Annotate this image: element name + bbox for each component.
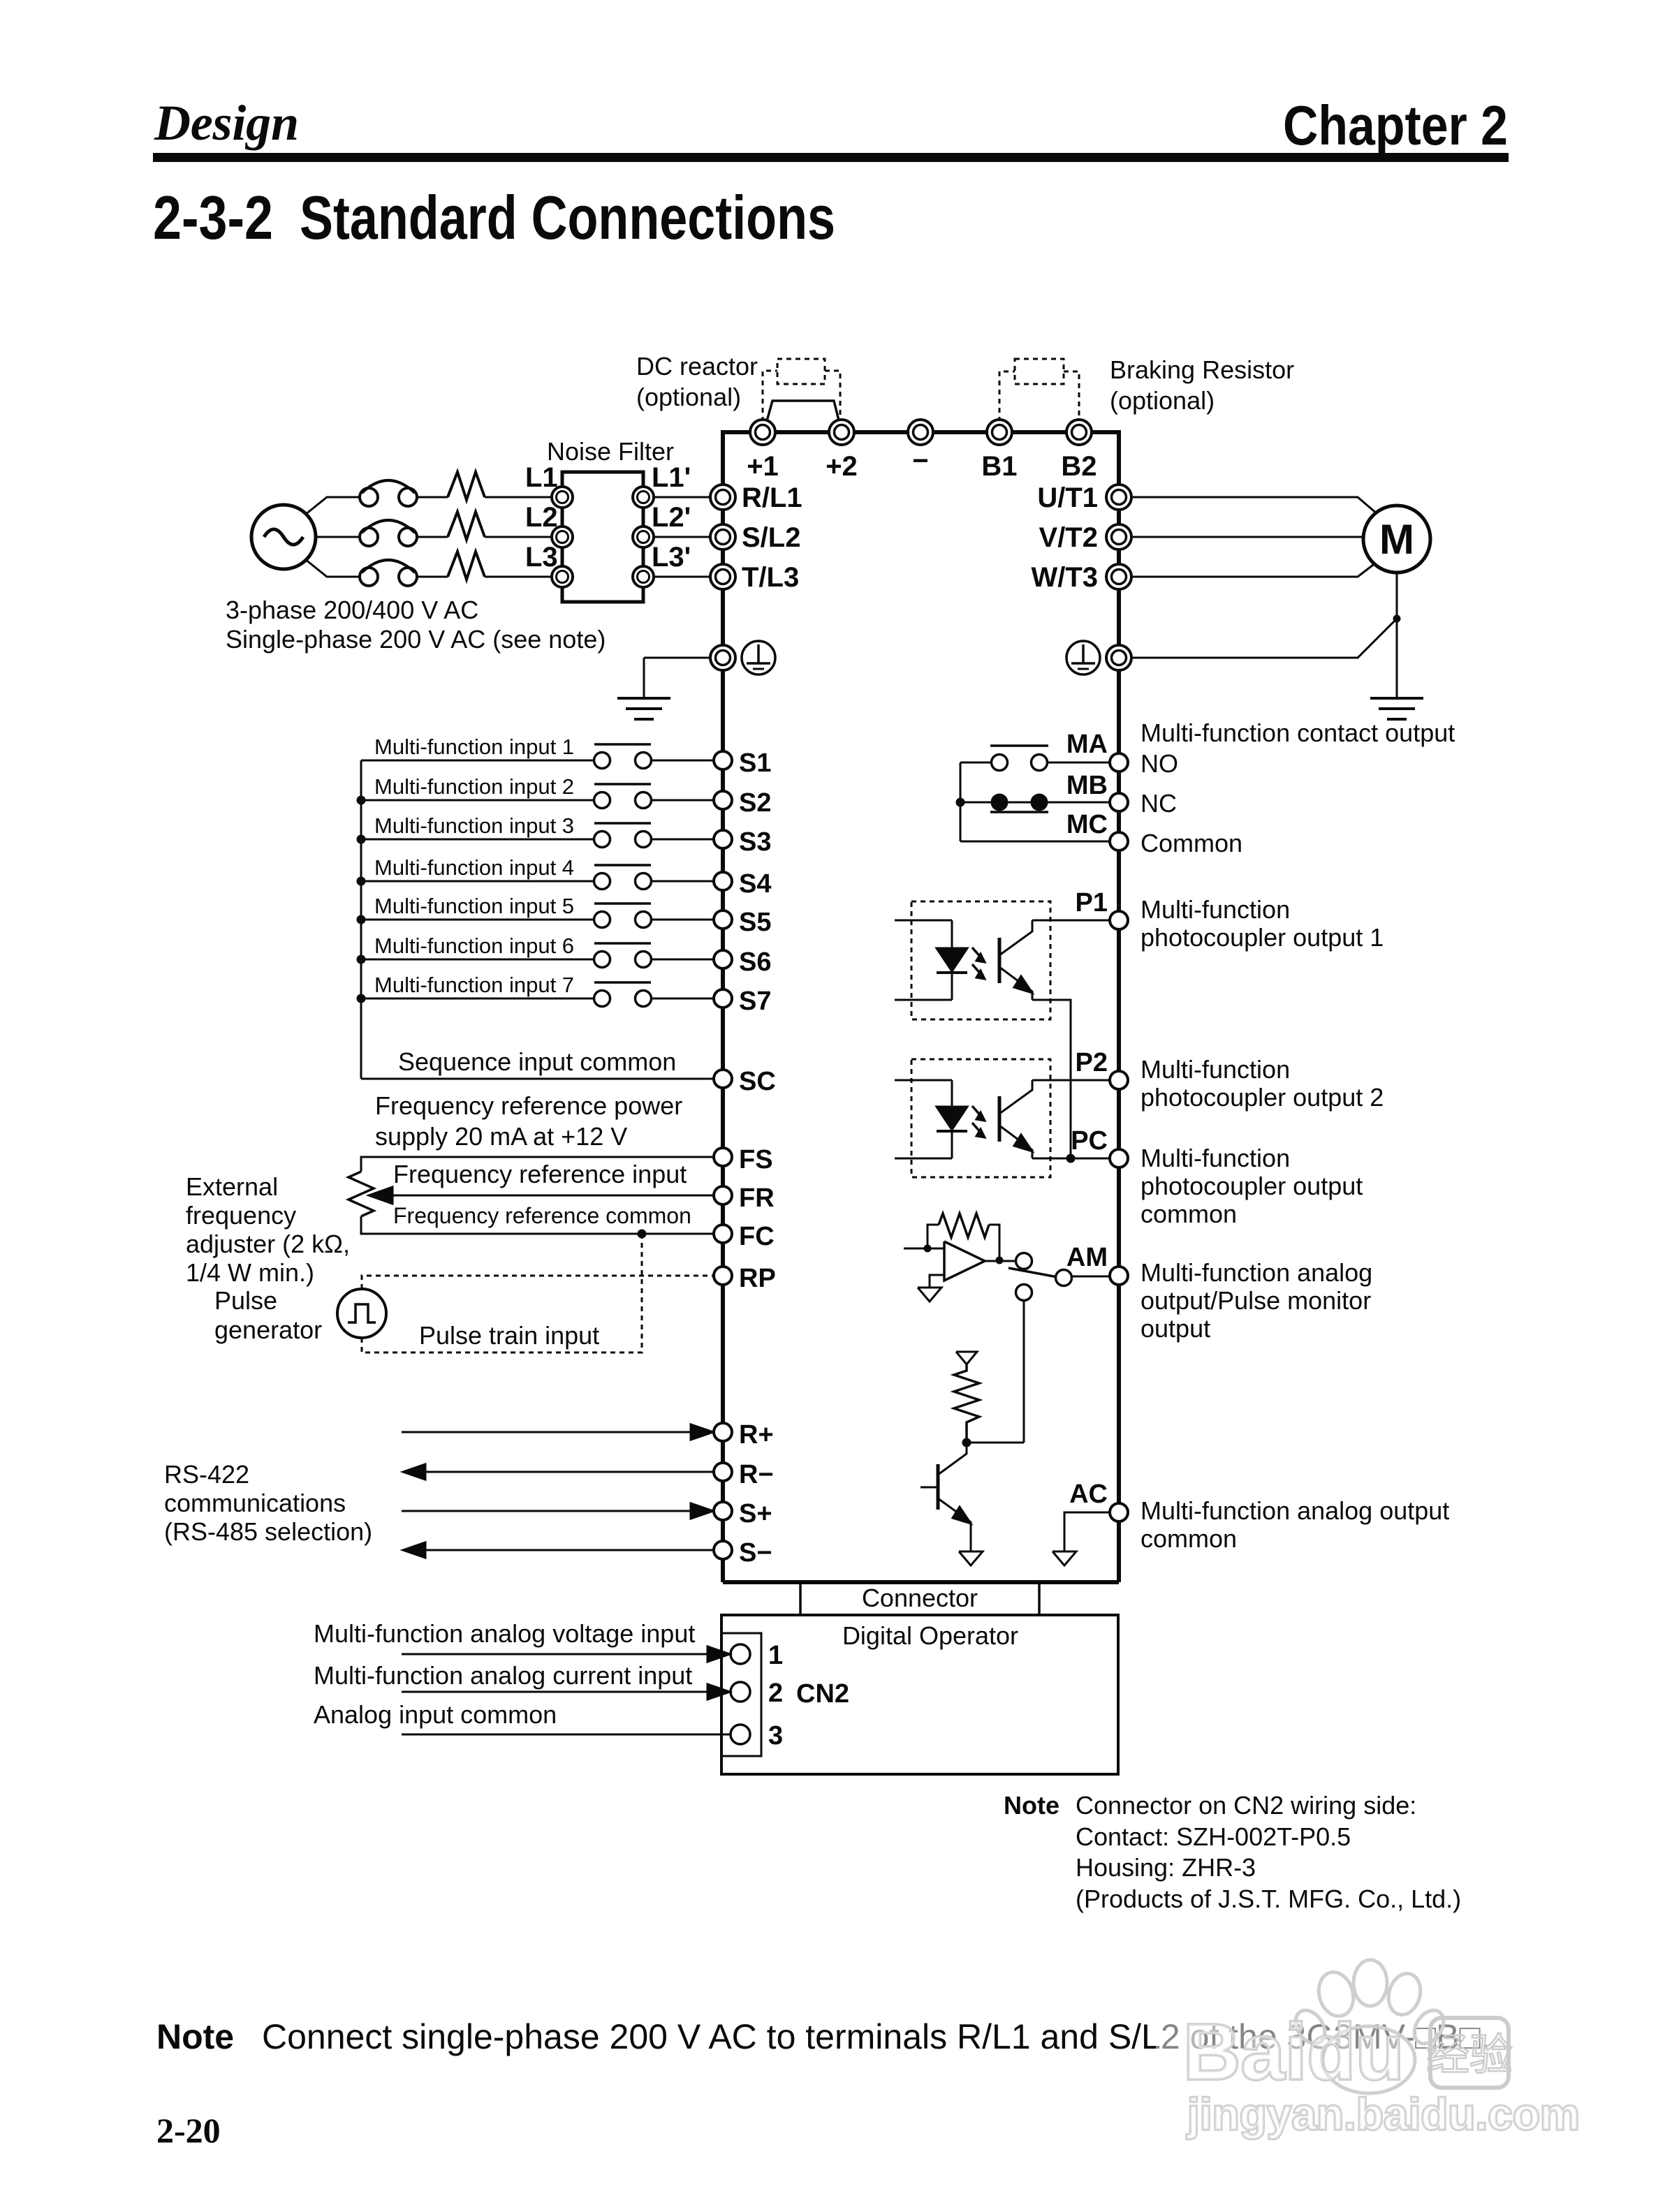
- svg-text:(RS-485 selection): (RS-485 selection): [164, 1517, 372, 1546]
- wire PE terminal left: [644, 657, 710, 659]
- svg-text:AM: AM: [1066, 1243, 1108, 1272]
- CN2 connector box: [721, 1633, 761, 1756]
- svg-text:S2: S2: [739, 788, 771, 818]
- photocoupler U2 dashed box: [911, 1059, 1050, 1177]
- svg-text:MC: MC: [1066, 810, 1108, 839]
- DC reactor (optional) dashed box: [777, 359, 825, 384]
- svg-text:B1: B1: [981, 451, 1017, 482]
- bottom note: [156, 2017, 1490, 2056]
- label photocoupler common line3: [1140, 1200, 1237, 1228]
- ground arrow op-amp: [918, 1288, 941, 1302]
- svg-text:Chapter 2: Chapter 2: [1283, 94, 1508, 156]
- svg-text:S/L2: S/L2: [742, 522, 800, 553]
- AC source (3-phase supply): [251, 505, 316, 569]
- terminal P1: [1110, 911, 1128, 929]
- note line 2: [1076, 1822, 1351, 1851]
- svg-text:L1: L1: [525, 462, 558, 493]
- svg-text:generator: generator: [214, 1315, 322, 1344]
- svg-text:(Products of J.S.T. MFG. Co.,: (Products of J.S.T. MFG. Co., Ltd.): [1076, 1885, 1461, 1913]
- terminal S/L2: [710, 524, 735, 550]
- svg-text:External: External: [186, 1172, 278, 1201]
- label S-: [739, 1538, 772, 1568]
- fuse F3: [360, 560, 417, 586]
- wire fuse to surge symbol row 1: [417, 496, 448, 499]
- junction bus S2: [357, 796, 366, 805]
- wire U2 collector to P2: [1032, 1079, 1110, 1082]
- inverter box outline: [723, 432, 1119, 1582]
- svg-text:2: 2: [768, 1679, 783, 1708]
- wire zigzag to noise filter L2: [485, 536, 552, 538]
- label RS-422 line1: [164, 1460, 249, 1489]
- svg-text:communications: communications: [164, 1489, 346, 1517]
- svg-text:FR: FR: [739, 1184, 775, 1213]
- wire bus to switch S5: [361, 919, 594, 921]
- label S4: [739, 869, 771, 899]
- svg-text:Note: Note: [1004, 1791, 1059, 1820]
- wire bus to switch S3: [361, 839, 594, 841]
- label analog output line2: [1140, 1286, 1371, 1315]
- switch contact S3: [594, 823, 652, 848]
- label photocoupler common line2: [1140, 1172, 1363, 1200]
- supply arrow above resistor: [956, 1352, 977, 1364]
- transistor Q1: [920, 1443, 971, 1551]
- photocoupler U2 phototransistor: [999, 1080, 1032, 1158]
- switch contact S4: [594, 865, 652, 890]
- wire switch to terminal S7: [652, 998, 713, 1000]
- svg-text:1: 1: [768, 1641, 783, 1670]
- svg-text:Frequency reference common: Frequency reference common: [393, 1203, 691, 1228]
- label Frequency reference power supply line1: [375, 1091, 682, 1120]
- wire switch to terminal S1: [652, 760, 713, 762]
- label Frequency reference input: [393, 1160, 687, 1188]
- svg-text:经验: 经验: [1426, 2031, 1513, 2079]
- wire contact c down: [1023, 1301, 1025, 1443]
- label Multi-function input 5: [374, 894, 574, 918]
- svg-text:M: M: [1379, 516, 1414, 563]
- label photocoupler output 2 line2: [1140, 1083, 1384, 1112]
- svg-text:Contact: SZH-002T-P0.5: Contact: SZH-002T-P0.5: [1076, 1822, 1351, 1851]
- wire fuse to surge symbol row 2: [417, 536, 448, 538]
- svg-text:W/T3: W/T3: [1031, 562, 1098, 593]
- wire R- with arrow: [403, 1464, 713, 1480]
- label Common: [1140, 829, 1242, 857]
- svg-text:P2: P2: [1076, 1048, 1108, 1077]
- junction contact bus MB: [956, 798, 965, 807]
- label pin 3: [768, 1721, 783, 1750]
- terminal S6: [714, 950, 732, 968]
- svg-text:NC: NC: [1140, 789, 1177, 818]
- label NO: [1140, 749, 1178, 778]
- digital operator box: [721, 1615, 1118, 1774]
- label Single-phase 200 V AC: [226, 625, 606, 654]
- label L3: [525, 542, 558, 573]
- photocoupler U1 light arrows: [972, 948, 985, 979]
- fuse F1: [360, 480, 417, 506]
- svg-text:photocoupler output 1: photocoupler output 1: [1140, 923, 1384, 952]
- svg-text:Multi-function: Multi-function: [1140, 1055, 1290, 1084]
- contact output left bus: [960, 762, 962, 841]
- wire PC: [1071, 1158, 1110, 1160]
- label Frequency reference power supply line2: [375, 1122, 627, 1151]
- svg-text:AC: AC: [1069, 1480, 1108, 1509]
- svg-text:S+: S+: [739, 1499, 772, 1528]
- label P1: [1076, 888, 1108, 917]
- label photocoupler common line1: [1140, 1144, 1290, 1172]
- terminal S2: [714, 791, 732, 809]
- wire analog current input with arrow: [402, 1684, 730, 1699]
- wire analog voltage input with arrow: [402, 1646, 730, 1662]
- svg-text:Analog input common: Analog input common: [314, 1700, 557, 1729]
- label L2&#8217;: [652, 502, 691, 533]
- selector switch lever: [1008, 1268, 1057, 1277]
- svg-text:S−: S−: [739, 1538, 772, 1568]
- junction PC: [1066, 1154, 1076, 1163]
- photocoupler U1 LED: [937, 948, 967, 973]
- junction bus S6: [357, 955, 366, 964]
- label +1: [747, 451, 779, 482]
- inverter bottom edge: [723, 1580, 1119, 1584]
- wire bus to MC: [960, 841, 1109, 843]
- label S7: [739, 987, 771, 1016]
- wire noise filter L1' to inverter: [654, 496, 710, 499]
- svg-text:Connector on CN2 wiring side:: Connector on CN2 wiring side:: [1076, 1791, 1416, 1820]
- label R+: [739, 1420, 774, 1450]
- terminal - (minus): [908, 420, 933, 445]
- svg-text:(optional): (optional): [636, 383, 741, 411]
- terminal S5: [714, 910, 732, 929]
- wire potentiometer to FC: [361, 1216, 713, 1234]
- wire U1 collector to P1: [1032, 920, 1110, 922]
- svg-text:Single-phase 200 V AC (see not: Single-phase 200 V AC (see note): [226, 625, 606, 654]
- label Sequence input common: [398, 1047, 676, 1076]
- svg-text:S1: S1: [739, 749, 771, 778]
- terminal W/T3: [1106, 564, 1131, 589]
- wire noise filter L2' to inverter: [654, 536, 710, 538]
- ground symbol motor: [1370, 698, 1423, 719]
- wire U/T1 to motor: [1131, 497, 1377, 514]
- label NC: [1140, 789, 1177, 818]
- baidu watermark: [1156, 1959, 1585, 2151]
- wire V/T2 to motor: [1131, 536, 1365, 538]
- terminal PC: [1110, 1149, 1128, 1167]
- svg-text:Braking Resistor: Braking Resistor: [1110, 355, 1294, 384]
- terminal SC: [714, 1070, 732, 1088]
- surge/impedance zigzag row 3: [448, 552, 485, 580]
- label Braking Resistor: [1110, 355, 1294, 384]
- label L1&#8217;: [652, 462, 691, 493]
- svg-text:Multi-function contact output: Multi-function contact output: [1140, 718, 1455, 747]
- svg-text:common: common: [1140, 1524, 1237, 1553]
- junction bus S7: [357, 994, 366, 1003]
- noise filter terminal L2: [552, 526, 573, 547]
- svg-text:P1: P1: [1076, 888, 1108, 917]
- ground symbol left: [617, 698, 670, 719]
- label S3: [739, 827, 771, 857]
- svg-text:V/T2: V/T2: [1039, 522, 1098, 553]
- switch contact S2: [594, 784, 652, 809]
- wire R+ with arrow: [402, 1424, 713, 1440]
- svg-text:Frequency reference input: Frequency reference input: [393, 1160, 687, 1188]
- jumper bar between +1 and +2: [765, 401, 840, 426]
- noise filter terminal L2': [633, 526, 654, 547]
- wire S- with arrow: [403, 1542, 713, 1558]
- label analog output line3: [1140, 1314, 1210, 1343]
- selector switch contact a: [1016, 1253, 1032, 1269]
- label L2: [525, 502, 558, 533]
- wire fuse to surge symbol row 3: [417, 576, 448, 578]
- header rule: [153, 153, 1509, 162]
- CN2 pin 3: [731, 1725, 750, 1744]
- sequence input bus: [360, 760, 362, 1079]
- terminal FS: [714, 1148, 732, 1166]
- svg-text:Pulse: Pulse: [214, 1286, 277, 1315]
- terminal P2: [1110, 1071, 1128, 1089]
- ground arrow transistor emitter: [959, 1551, 983, 1565]
- wire U2 emitter to PC: [1032, 1158, 1071, 1160]
- label RS-422 line2: [164, 1489, 346, 1517]
- junction bus S4: [357, 877, 366, 886]
- label External frequency adjuster line1: [186, 1172, 278, 1201]
- wire switch to terminal S6: [652, 959, 713, 961]
- junction resistor/transistor: [962, 1438, 971, 1447]
- svg-text:2-20: 2-20: [156, 2111, 221, 2150]
- terminal B1: [987, 420, 1012, 445]
- label analog output common line2: [1140, 1524, 1237, 1553]
- label RP: [739, 1264, 776, 1293]
- surge/impedance zigzag row 2: [448, 512, 485, 540]
- terminal MB: [1110, 793, 1128, 811]
- photocoupler U2 LED: [937, 1107, 967, 1131]
- terminal B2: [1066, 420, 1092, 445]
- terminal S+: [714, 1502, 732, 1520]
- svg-text:RS-422: RS-422: [164, 1460, 249, 1489]
- label V/T2: [1039, 522, 1098, 553]
- svg-text:supply 20 mA at +12 V: supply 20 mA at +12 V: [375, 1122, 627, 1151]
- CN2 pin 2: [731, 1682, 750, 1702]
- label R-: [739, 1460, 774, 1489]
- svg-text:S4: S4: [739, 869, 771, 899]
- wire op-amp output: [985, 1260, 1015, 1262]
- noise filter terminal L3: [552, 566, 573, 587]
- dashed wire FC to pulse box: [362, 1234, 642, 1352]
- svg-text:Noise Filter: Noise Filter: [547, 437, 674, 466]
- svg-text:(optional): (optional): [1110, 386, 1215, 415]
- terminal R-: [714, 1463, 732, 1481]
- terminal U/T1: [1106, 485, 1131, 510]
- label FC: [739, 1222, 775, 1251]
- terminal FR: [714, 1186, 732, 1204]
- label CN2: [796, 1679, 849, 1709]
- svg-text:Sequence input common: Sequence input common: [398, 1047, 676, 1076]
- wire U1 emitter to PC: [1032, 1000, 1071, 1158]
- label +2: [826, 451, 858, 482]
- note line 4: [1076, 1885, 1461, 1913]
- wire analog input common: [402, 1734, 730, 1736]
- DC reactor dashed wiring: [763, 371, 840, 422]
- svg-text:Multi-function analog: Multi-function analog: [1140, 1258, 1372, 1287]
- svg-text:NO: NO: [1140, 749, 1178, 778]
- terminal MC: [1110, 832, 1128, 850]
- terminal +2: [829, 420, 854, 445]
- dashed wire pulse gen to RP: [362, 1276, 713, 1289]
- label Multi-function input 2: [374, 774, 574, 799]
- terminal S4: [714, 872, 732, 890]
- svg-text:SC: SC: [739, 1067, 776, 1096]
- label B1: [981, 451, 1017, 482]
- label pin 1: [768, 1641, 783, 1670]
- junction bus S3: [357, 835, 366, 844]
- svg-text:T/L3: T/L3: [742, 562, 799, 593]
- label Frequency reference common: [393, 1203, 691, 1228]
- resistor R1 vertical: [954, 1364, 979, 1443]
- wire bus to switch S6: [361, 959, 594, 961]
- note line 3: [1076, 1853, 1256, 1882]
- label MC: [1066, 810, 1108, 839]
- wire bus to switch S1: [361, 760, 594, 762]
- wire PE down left: [643, 658, 645, 698]
- svg-text:Multi-function input 2: Multi-function input 2: [374, 774, 574, 799]
- svg-text:DC reactor: DC reactor: [636, 352, 758, 381]
- svg-text:photocoupler output: photocoupler output: [1140, 1172, 1363, 1200]
- label P2: [1076, 1048, 1108, 1077]
- label photocoupler output 2 line1: [1140, 1055, 1290, 1084]
- svg-text:S7: S7: [739, 987, 771, 1016]
- svg-text:L1': L1': [652, 462, 691, 493]
- PE circle symbol left: [742, 641, 775, 674]
- svg-text:1/4 W min.): 1/4 W min.): [186, 1258, 314, 1287]
- note line 1: [1076, 1791, 1416, 1820]
- label 3-phase 200/400 V AC: [226, 596, 478, 624]
- junction op-amp plus input: [924, 1245, 932, 1253]
- label FS: [739, 1145, 773, 1174]
- photocoupler U2 input wires: [895, 1080, 952, 1158]
- label S1: [739, 749, 771, 778]
- svg-text:photocoupler output 2: photocoupler output 2: [1140, 1083, 1384, 1112]
- label Multi-function input 7: [374, 973, 574, 997]
- svg-text:RP: RP: [739, 1264, 776, 1293]
- label S6: [739, 948, 771, 977]
- svg-text:Pulse train input: Pulse train input: [419, 1321, 599, 1350]
- wire SC: [361, 1078, 713, 1080]
- label Multi-function input 4: [374, 855, 574, 880]
- switch contact S7: [594, 982, 652, 1007]
- fuse F2: [360, 520, 417, 546]
- motor M: [1363, 506, 1430, 573]
- wire switch to terminal S4: [652, 880, 713, 883]
- svg-text:output/Pulse monitor: output/Pulse monitor: [1140, 1286, 1371, 1315]
- section heading 2-3-2 Standard Connections: [153, 183, 835, 252]
- svg-text:Housing: ZHR-3: Housing: ZHR-3: [1076, 1853, 1256, 1882]
- wire zigzag to noise filter L1: [485, 496, 552, 499]
- svg-text:Multi-function: Multi-function: [1140, 1144, 1290, 1172]
- label B2: [1061, 451, 1096, 482]
- label External frequency adjuster line3: [186, 1230, 350, 1258]
- label photocoupler output 1 line2: [1140, 923, 1384, 952]
- svg-text:S3: S3: [739, 827, 771, 857]
- svg-text:FS: FS: [739, 1145, 773, 1174]
- label S+: [739, 1499, 772, 1528]
- svg-text:Multi-function input 6: Multi-function input 6: [374, 934, 574, 958]
- label RS-422 line3: [164, 1517, 372, 1546]
- label DC reactor: [636, 352, 758, 381]
- terminal S3: [714, 830, 732, 848]
- braking resistor dashed wiring: [999, 371, 1079, 422]
- svg-text:Multi-function: Multi-function: [1140, 895, 1290, 924]
- wire source to fuse L2: [316, 536, 360, 538]
- svg-text:L2': L2': [652, 502, 691, 533]
- wire switch to AM: [1072, 1276, 1110, 1278]
- svg-text:Multi-function input 7: Multi-function input 7: [374, 973, 574, 997]
- label S2: [739, 788, 771, 818]
- svg-text:R/L1: R/L1: [742, 482, 802, 513]
- svg-text:frequency: frequency: [186, 1201, 296, 1230]
- svg-text:Digital Operator: Digital Operator: [842, 1621, 1018, 1650]
- label Multi-function analog current input: [314, 1661, 692, 1690]
- terminal S7: [714, 989, 732, 1008]
- junction bus S5: [357, 915, 366, 924]
- label Multi-function analog voltage input: [314, 1619, 695, 1648]
- label Connector: [862, 1584, 978, 1612]
- label U/T1: [1037, 482, 1098, 513]
- label Multi-function input 1: [374, 735, 574, 759]
- photocoupler U1 phototransistor: [999, 920, 1032, 1000]
- junction op-amp output: [996, 1257, 1004, 1264]
- svg-text:FC: FC: [739, 1222, 775, 1251]
- terminal S-: [714, 1541, 732, 1559]
- surge/impedance zigzag row 1: [448, 472, 485, 500]
- svg-text:3: 3: [768, 1721, 783, 1750]
- wire switch to terminal S2: [652, 799, 713, 802]
- relay contact NC (MB): [960, 794, 1109, 813]
- svg-text:+1: +1: [747, 451, 779, 482]
- terminal R/L1: [710, 485, 735, 510]
- svg-text:Frequency reference power: Frequency reference power: [375, 1091, 682, 1120]
- label photocoupler output 1 line1: [1140, 895, 1290, 924]
- label analog output common line1: [1140, 1496, 1449, 1525]
- svg-text:Common: Common: [1140, 829, 1242, 857]
- terminal RP: [714, 1267, 732, 1285]
- svg-text:Multi-function input 1: Multi-function input 1: [374, 735, 574, 759]
- page number 2-20: [156, 2111, 221, 2150]
- wire zigzag to noise filter L3: [485, 576, 552, 578]
- wire source to fuse L3: [305, 559, 360, 577]
- note heading: [1004, 1791, 1059, 1820]
- wire NO contact to MA: [1048, 762, 1109, 764]
- noise filter terminal L1: [552, 487, 573, 508]
- svg-text:Note: Note: [156, 2017, 234, 2056]
- label minus: [912, 445, 928, 476]
- wire S+ with arrow: [402, 1503, 713, 1519]
- wire motor to ground: [1396, 573, 1398, 698]
- svg-text:U/T1: U/T1: [1037, 482, 1098, 513]
- label Pulse generator line1: [214, 1286, 277, 1315]
- label Pulse generator line2: [214, 1315, 322, 1344]
- junction motor ground: [1393, 615, 1401, 623]
- PE circle symbol right: [1066, 641, 1100, 674]
- svg-text:Standard Connections: Standard Connections: [300, 183, 835, 252]
- label Pulse train input: [419, 1321, 599, 1350]
- label T/L3: [742, 562, 799, 593]
- svg-text:B2: B2: [1061, 451, 1096, 482]
- label AM: [1066, 1243, 1108, 1272]
- wire noise filter L3' to inverter: [654, 576, 710, 578]
- label pin 2: [768, 1679, 783, 1708]
- wire right PE to motor ground: [1131, 619, 1397, 658]
- label Multi-function input 6: [374, 934, 574, 958]
- op-amp feedback resistor: [927, 1214, 999, 1260]
- switch contact S6: [594, 943, 652, 968]
- label MB: [1066, 771, 1108, 800]
